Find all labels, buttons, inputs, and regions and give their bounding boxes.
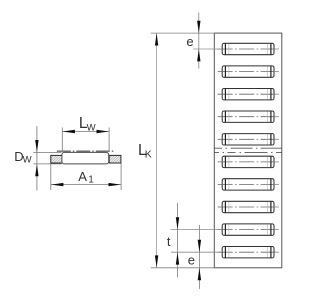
dimension e top line (198, 13, 200, 69)
dimension e bottom arrow up (198, 268, 201, 280)
roller 1 (218, 43, 279, 54)
dimension e bottom line (199, 225, 201, 289)
wire: A1 left extension line (50, 164, 52, 190)
dimension e top arrow up (197, 49, 200, 61)
dimension Lw line (62, 131, 109, 133)
dimension e bottom arrow down (198, 240, 201, 252)
dimension Dw line (36, 126, 38, 191)
dimension t arrow up (176, 252, 179, 264)
dimension Lk line (156, 33, 158, 268)
dimension A1 line (51, 184, 121, 186)
cage bar left (hatched pin) (51, 155, 62, 163)
roller 6 (218, 156, 279, 167)
dimension t line (177, 203, 179, 278)
svg-text:e: e (186, 34, 193, 49)
wire: cage top edge extension line (151, 32, 215, 34)
roller 5 (218, 134, 279, 145)
wire: A1 right extension line (120, 164, 122, 190)
cage bar right (hatched pin) (109, 155, 121, 163)
dimension A1 arrow left (51, 183, 63, 186)
svg-text:W: W (87, 122, 96, 133)
roller 2 (218, 66, 279, 77)
roller 10 (171, 247, 279, 258)
roller 9 (171, 224, 279, 235)
roller 4 (218, 111, 279, 122)
dimension Dw arrow down (35, 140, 38, 152)
wire: Lw left extension line (61, 128, 63, 152)
wire: cage interruption break line lower (215, 151, 282, 153)
dimension Lw arrow right (97, 130, 109, 133)
wire: roller 1 centerline extended left (193, 48, 218, 50)
wire: roller axis dash-dot centerline (57, 150, 115, 152)
dimension e top arrow down (197, 21, 200, 33)
svg-text:W: W (23, 155, 32, 166)
wire: Dw lower extension line (33, 163, 61, 165)
dimension Dw arrow up (35, 164, 38, 176)
svg-text:A: A (78, 169, 87, 184)
roller 7 (218, 179, 279, 190)
dimension Lk arrow down (155, 255, 158, 267)
dimension A1 arrow right (109, 183, 121, 186)
wire: Lw right extension line (108, 128, 110, 152)
svg-text:1: 1 (88, 175, 94, 186)
roller 8 (218, 201, 279, 212)
dimension t arrow down (176, 217, 179, 229)
dimension Lk arrow up (155, 33, 158, 45)
roller 3 (218, 89, 279, 100)
svg-text:t: t (167, 234, 171, 249)
roller body W (left view) (62, 152, 109, 164)
dimension Lw arrow left (63, 130, 75, 133)
wire: Dw upper extension line (33, 151, 61, 153)
wire: cage interruption break line upper (215, 147, 282, 149)
wire: cage bottom edge extension line (151, 267, 215, 269)
svg-text:e: e (188, 253, 195, 268)
svg-text:K: K (145, 149, 152, 161)
cage plate outline (214, 33, 281, 268)
